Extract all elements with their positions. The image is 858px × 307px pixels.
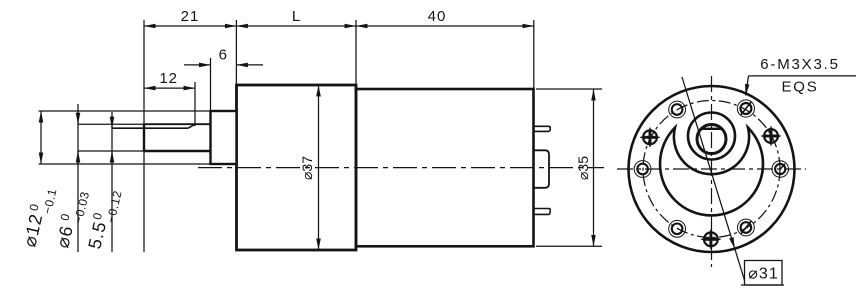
extension line at shaft tip x144 xyxy=(143,20,145,252)
gearbox body outline xyxy=(237,85,357,250)
extension line gearbox left x236 xyxy=(235,20,237,85)
EQS hole 60deg xyxy=(738,219,755,236)
motor rear boss xyxy=(534,150,549,188)
svg-text:6-M3X3.5: 6-M3X3.5 xyxy=(760,56,839,73)
dia31 leader arrowhead xyxy=(731,237,735,249)
face vertical center line xyxy=(711,76,713,267)
dia35 extension line bottom xyxy=(536,245,602,247)
shaft top line xyxy=(144,123,211,125)
dia37 text rotated xyxy=(299,156,315,180)
EQS hole 240deg xyxy=(669,101,686,118)
crescent groove xyxy=(660,128,763,216)
5.5 dimension vertical line xyxy=(111,112,113,252)
motor terminal tab upper xyxy=(534,126,551,131)
label dia12 0/-0.1 rotated xyxy=(18,184,59,250)
extension line shaft bottom xyxy=(78,150,144,152)
dia6 dimension vertical line xyxy=(77,104,79,252)
dimension line 12 xyxy=(144,87,195,89)
face horizontal center line xyxy=(617,168,806,170)
svg-text:⌀35: ⌀35 xyxy=(575,156,591,180)
EQS hole 0deg xyxy=(772,161,789,178)
extension line shaft top xyxy=(78,123,144,125)
leader to M3 hole xyxy=(746,76,749,96)
EQS hole 300deg xyxy=(737,100,754,117)
extension line bottom of boss xyxy=(39,163,211,165)
dia31 leader line xyxy=(682,77,746,286)
dia35 extension line top xyxy=(536,88,602,90)
label dia6 0/-0.03 rotated xyxy=(51,187,92,252)
5.5 top arrow xyxy=(111,116,113,128)
dia31 box xyxy=(745,261,783,286)
extension line boss left x210.5 xyxy=(210,58,212,111)
dia31 box underline xyxy=(741,284,784,286)
dimension 6 right segment xyxy=(236,64,263,66)
phillips screw 210deg xyxy=(640,128,659,147)
dia6 bottom arrow xyxy=(77,151,79,164)
svg-text:L: L xyxy=(292,8,300,25)
motor body outline xyxy=(356,89,534,246)
extension line ramp end x195 xyxy=(194,82,196,126)
extension line motor right x533.8 xyxy=(533,20,535,89)
dimension line L xyxy=(236,25,356,27)
shaft boss circle xyxy=(688,113,735,160)
dimension line 21 xyxy=(144,25,236,27)
dia37 dimension line xyxy=(318,85,320,250)
motor axis center line xyxy=(198,167,604,169)
svg-text:⌀37: ⌀37 xyxy=(299,156,315,180)
dimension 6 left segment xyxy=(184,64,211,66)
svg-text:⌀31: ⌀31 xyxy=(748,266,778,283)
EQS hole 120deg xyxy=(669,220,686,237)
5.5 bottom arrow xyxy=(111,151,113,164)
EQS hole 180deg xyxy=(634,161,651,178)
label underline xyxy=(749,75,857,77)
motor terminal tab lower xyxy=(534,209,551,215)
phillips screw 330deg xyxy=(761,126,780,145)
svg-text:12: 12 xyxy=(159,70,178,87)
face outer circle xyxy=(629,86,795,252)
dimension line dia12 vertical xyxy=(40,111,42,164)
extension line top of boss xyxy=(39,110,211,112)
svg-text:21: 21 xyxy=(181,8,200,25)
extension line gearbox right x356 xyxy=(355,20,357,85)
dia35 dimension line xyxy=(593,89,595,246)
shaft tip edge xyxy=(143,124,145,152)
label 5.5 0/-0.12 rotated xyxy=(83,186,124,253)
dia6 top arrow xyxy=(77,112,79,124)
shaft flat ramp xyxy=(188,124,195,128)
front boss (diameter 12) xyxy=(211,111,237,164)
dia35 text rotated xyxy=(575,156,591,180)
shaft flat chord xyxy=(701,128,722,130)
shaft bottom line xyxy=(144,150,211,153)
svg-text:6: 6 xyxy=(219,47,227,64)
phillips screw 90deg xyxy=(701,230,720,249)
svg-text:40: 40 xyxy=(428,8,447,25)
dimension line 40 xyxy=(356,25,534,27)
bolt circle dia31 dashed xyxy=(643,101,780,238)
svg-text:EQS: EQS xyxy=(781,79,818,96)
shaft flat line xyxy=(112,127,188,129)
shaft circle xyxy=(697,125,726,154)
